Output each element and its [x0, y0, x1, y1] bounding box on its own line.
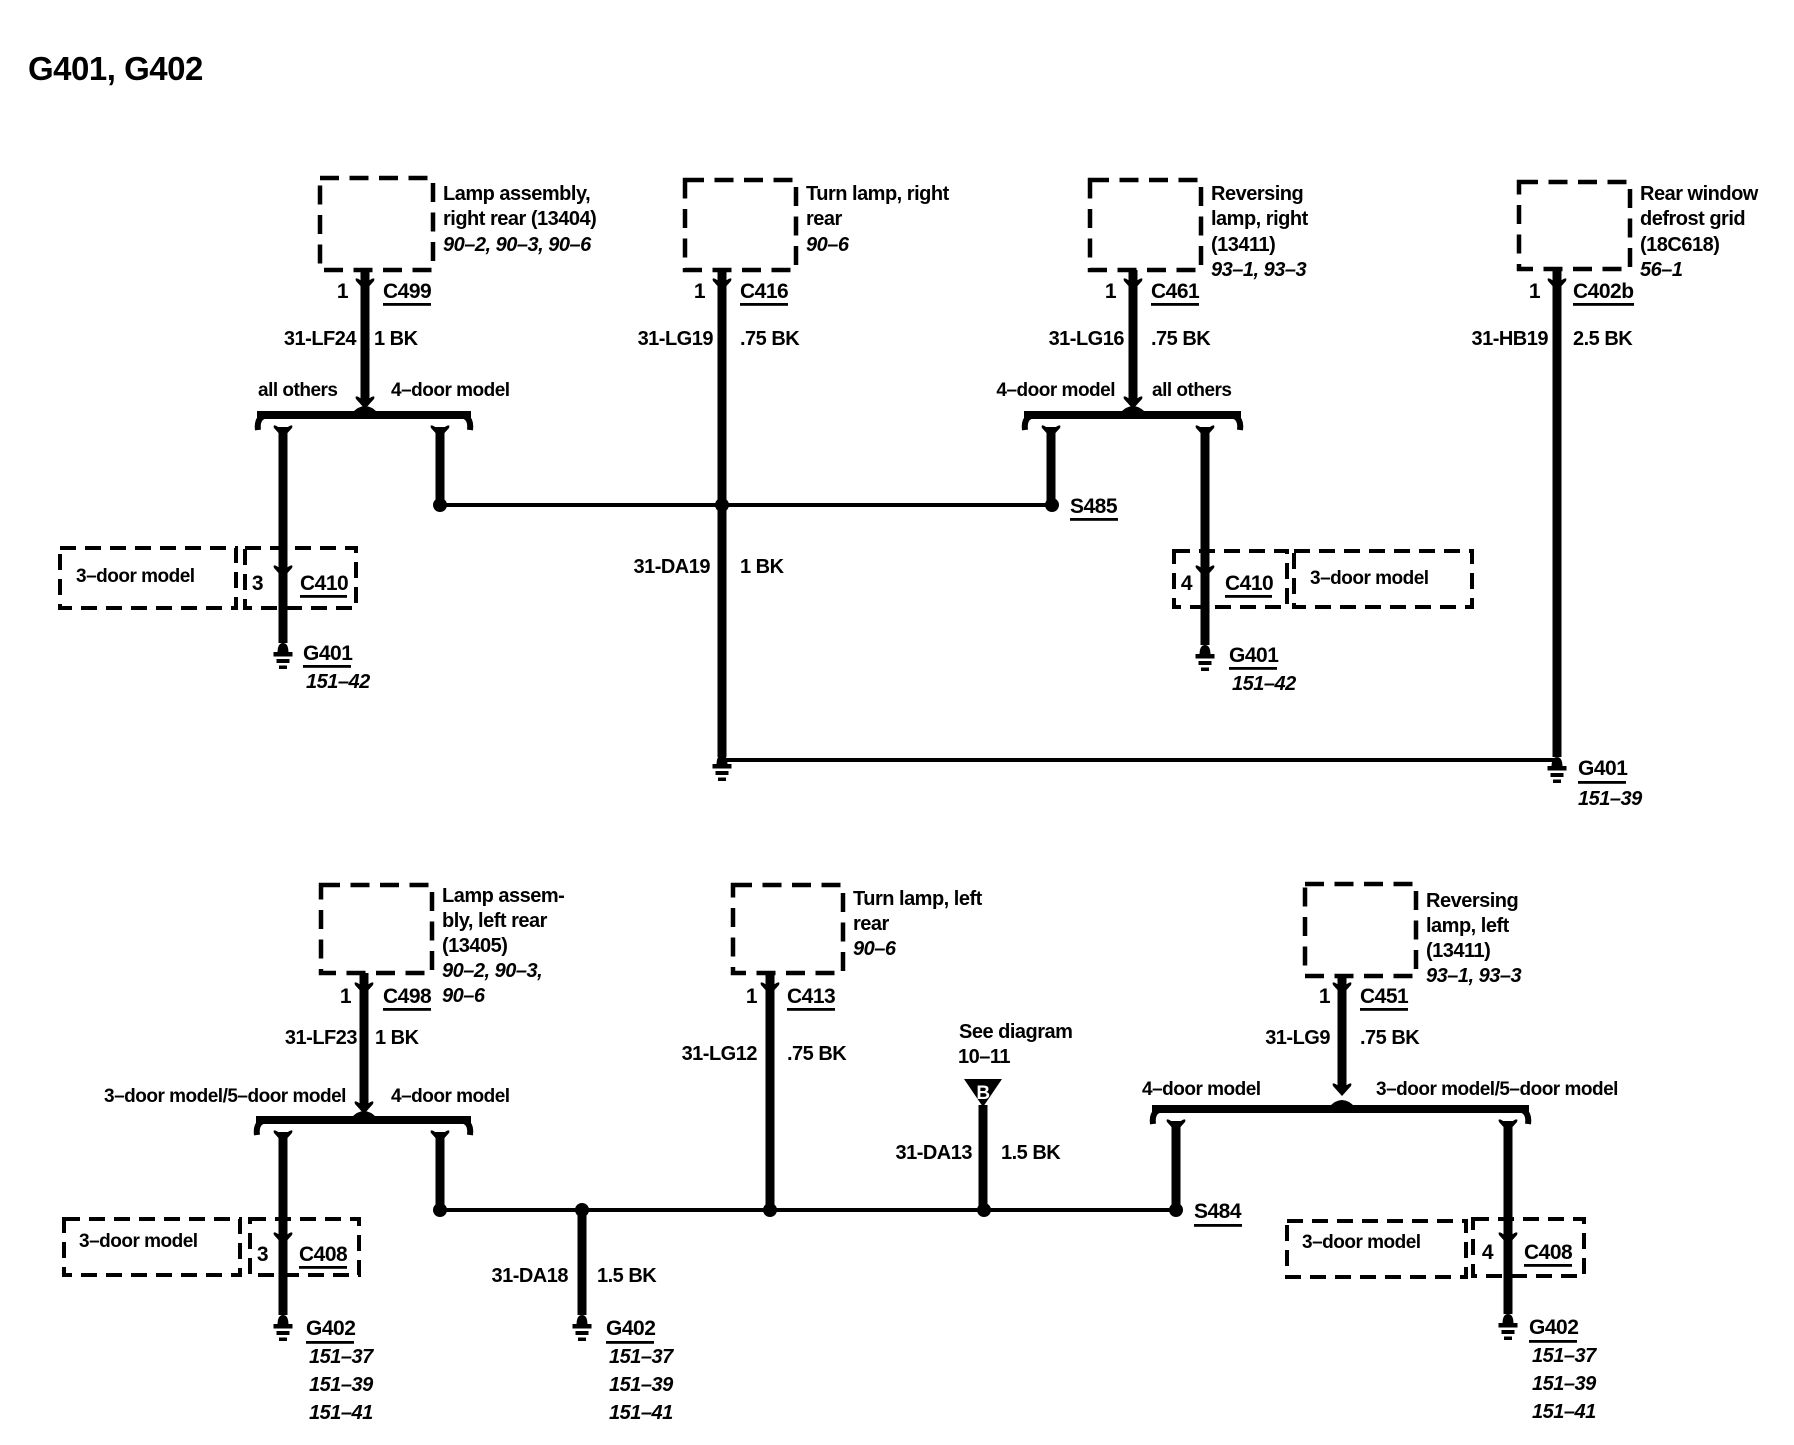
- svg-text:G402: G402: [306, 1317, 355, 1340]
- junction node 31-DA13: [977, 1203, 991, 1217]
- branch wire (4-door) to splice run: [431, 1130, 450, 1143]
- svg-text:1.5 BK: 1.5 BK: [1001, 1142, 1061, 1164]
- svg-text:31-LF23: 31-LF23: [285, 1027, 357, 1049]
- dashed box 3-door model (bottom right): [1287, 1221, 1466, 1277]
- svg-text:G401: G401: [1229, 644, 1279, 667]
- component box: Lamp assembly, right rear (13404): [320, 178, 433, 270]
- svg-text:C402b: C402b: [1573, 280, 1634, 303]
- svg-text:Turn lamp, left: Turn lamp, left: [853, 888, 983, 910]
- svg-text:4–door model: 4–door model: [996, 380, 1115, 401]
- wire 31-HB19 from C402b down: [1553, 269, 1562, 757]
- svg-text:90–2, 90–3, 90–6: 90–2, 90–3, 90–6: [443, 234, 592, 256]
- svg-text:1: 1: [337, 280, 349, 303]
- svg-text:Rear window: Rear window: [1640, 183, 1759, 205]
- svg-text:C408: C408: [299, 1243, 348, 1266]
- svg-text:.75 BK: .75 BK: [1151, 328, 1211, 350]
- svg-text:151–37: 151–37: [1532, 1345, 1597, 1367]
- svg-text:31-HB19: 31-HB19: [1471, 328, 1548, 350]
- ground G401 (left): [278, 643, 289, 653]
- svg-text:defrost grid: defrost grid: [1640, 208, 1745, 230]
- svg-text:lamp, left: lamp, left: [1426, 915, 1510, 937]
- svg-text:all others: all others: [1152, 380, 1231, 401]
- branch wire to C410 pin 4 (all others): [1196, 425, 1215, 438]
- wire 31-DA18 to ground: [578, 1210, 587, 1315]
- svg-text:1: 1: [1319, 985, 1331, 1008]
- svg-text:C416: C416: [740, 280, 788, 303]
- svg-text:right rear (13404): right rear (13404): [443, 208, 596, 230]
- ground G401 under 31-HB19: [1552, 757, 1563, 767]
- svg-text:3–door model/5–door model: 3–door model/5–door model: [1376, 1079, 1618, 1100]
- svg-text:3: 3: [257, 1243, 268, 1266]
- svg-text:rear: rear: [806, 208, 843, 230]
- junction node 31-DA18: [575, 1203, 589, 1217]
- svg-text:1: 1: [694, 280, 706, 303]
- dashed box 3-door model (top right): [1294, 551, 1472, 607]
- svg-text:.75 BK: .75 BK: [787, 1043, 847, 1065]
- svg-text:90–6: 90–6: [442, 985, 486, 1007]
- connector C461 pin 1: [1124, 278, 1143, 291]
- svg-text:all others: all others: [258, 380, 337, 401]
- option split bar (4-door model / all others): [1024, 411, 1241, 419]
- junction node: [433, 498, 447, 512]
- svg-text:90–2, 90–3,: 90–2, 90–3,: [442, 960, 542, 982]
- svg-text:151–41: 151–41: [1532, 1401, 1596, 1423]
- svg-text:1 BK: 1 BK: [375, 1027, 420, 1049]
- svg-text:3: 3: [252, 572, 263, 595]
- svg-text:.75 BK: .75 BK: [1360, 1027, 1420, 1049]
- svg-text:151–37: 151–37: [609, 1346, 674, 1368]
- component box: Lamp assembly, left rear (13405): [321, 885, 432, 973]
- svg-text:1: 1: [1105, 280, 1117, 303]
- connector C410 pin 4: [1174, 551, 1287, 607]
- connector C410 pin 3: [245, 548, 356, 608]
- dashed box 3-door model (bottom left): [64, 1219, 240, 1275]
- svg-text:G402: G402: [1529, 1316, 1578, 1339]
- svg-text:(18C618): (18C618): [1640, 234, 1719, 256]
- component box: Turn lamp, left rear: [733, 885, 843, 973]
- ground G402 (left): [278, 1315, 289, 1325]
- connector C413 pin 1: [761, 982, 780, 995]
- svg-text:4–door model: 4–door model: [391, 1086, 510, 1107]
- svg-text:1: 1: [340, 985, 352, 1008]
- svg-text:10–11: 10–11: [958, 1046, 1010, 1068]
- option split bar (3-door/5-door / 4-door) left: [256, 1116, 471, 1124]
- svg-text:151–42: 151–42: [306, 671, 370, 693]
- svg-text:31-LG16: 31-LG16: [1049, 328, 1125, 350]
- branch wire to C408 pin 3: [274, 1130, 293, 1143]
- svg-text:C413: C413: [787, 985, 835, 1008]
- svg-text:3–door model: 3–door model: [79, 1231, 198, 1252]
- ground run wire joining G401 grounds: [722, 758, 1557, 762]
- svg-text:G402: G402: [606, 1317, 655, 1340]
- svg-text:151–42: 151–42: [1232, 673, 1296, 695]
- junction node on 31-DA19: [715, 498, 729, 512]
- svg-text:31-LF24: 31-LF24: [284, 328, 357, 350]
- svg-text:4–door model: 4–door model: [391, 380, 510, 401]
- branch wire to C410 pin 3 (all others): [274, 425, 293, 438]
- svg-text:C498: C498: [383, 985, 432, 1008]
- svg-text:1.5 BK: 1.5 BK: [597, 1265, 657, 1287]
- splice S484: [1169, 1203, 1183, 1217]
- svg-text:151–37: 151–37: [309, 1346, 374, 1368]
- ground G402 (right): [1503, 1314, 1514, 1324]
- svg-text:90–6: 90–6: [853, 938, 897, 960]
- svg-text:.75 BK: .75 BK: [740, 328, 800, 350]
- branch wire to C408 pin 4: [1499, 1119, 1518, 1132]
- branch wire to splice S484: [1167, 1119, 1186, 1132]
- svg-text:Reversing: Reversing: [1211, 183, 1303, 205]
- wire 31-DA13 from B to splice run: [979, 1105, 988, 1214]
- svg-text:93–1, 93–3: 93–1, 93–3: [1426, 965, 1521, 987]
- svg-text:bly, left rear: bly, left rear: [442, 910, 548, 932]
- junction node 31-LG12: [763, 1203, 777, 1217]
- svg-text:3–door model: 3–door model: [76, 566, 195, 587]
- dashed box 3-door model (top left): [60, 548, 236, 608]
- svg-text:C410: C410: [300, 572, 348, 595]
- svg-text:31-DA18: 31-DA18: [491, 1265, 568, 1287]
- splice S485: [1045, 498, 1059, 512]
- component box: Rear window defrost grid (18C618): [1519, 182, 1630, 269]
- connector C402b pin 1: [1548, 278, 1567, 291]
- svg-text:1 BK: 1 BK: [374, 328, 419, 350]
- option split bar (4-door / 3-door/5-door) right: [1152, 1105, 1529, 1113]
- svg-text:31-LG19: 31-LG19: [638, 328, 714, 350]
- svg-text:90–6: 90–6: [806, 234, 850, 256]
- svg-text:1: 1: [1529, 280, 1541, 303]
- svg-text:31-LG9: 31-LG9: [1265, 1027, 1330, 1049]
- connector C498 pin 1: [355, 982, 374, 995]
- wire 31-LG19 from C416 down: [718, 270, 727, 757]
- junction node: [433, 1203, 447, 1217]
- wire 31-LG9 from C451 to option bar: [1338, 976, 1347, 1091]
- ground G401 (right): [1200, 645, 1211, 655]
- svg-text:C410: C410: [1225, 572, 1273, 595]
- svg-text:4–door model: 4–door model: [1142, 1079, 1261, 1100]
- connector C408 pin 4: [1473, 1219, 1584, 1276]
- connector C408 pin 3: [250, 1219, 359, 1275]
- svg-text:G401, G402: G401, G402: [28, 50, 203, 87]
- connector C416 pin 1: [713, 278, 732, 291]
- component box: Turn lamp, right rear: [685, 180, 796, 270]
- component box: Reversing lamp, left (13411): [1305, 884, 1416, 976]
- svg-text:151–39: 151–39: [1578, 788, 1643, 810]
- svg-text:C499: C499: [383, 280, 431, 303]
- svg-text:See diagram: See diagram: [959, 1021, 1072, 1043]
- connector C499 pin 1: [356, 278, 375, 291]
- svg-text:G401: G401: [303, 642, 353, 665]
- svg-text:3–door model/5–door model: 3–door model/5–door model: [104, 1086, 346, 1107]
- ground G402 (center): [577, 1315, 588, 1325]
- svg-text:151–39: 151–39: [1532, 1373, 1597, 1395]
- svg-text:1 BK: 1 BK: [740, 556, 785, 578]
- wire splice run to S485: [440, 503, 1052, 507]
- svg-text:(13411): (13411): [1426, 940, 1490, 962]
- svg-text:4: 4: [1181, 572, 1193, 595]
- svg-text:C451: C451: [1360, 985, 1409, 1008]
- svg-text:1: 1: [746, 985, 758, 1008]
- wire 31-LF24 from C499 to option bar: [361, 270, 370, 404]
- svg-text:lamp, right: lamp, right: [1211, 208, 1309, 230]
- splice run wire to S484: [440, 1208, 1176, 1212]
- svg-text:31-DA13: 31-DA13: [895, 1142, 972, 1164]
- component box: Reversing lamp, right (13411): [1090, 180, 1201, 270]
- wire 31-DA19 down to ground: [718, 505, 727, 757]
- svg-text:2.5 BK: 2.5 BK: [1573, 328, 1633, 350]
- svg-text:rear: rear: [853, 913, 890, 935]
- svg-text:151–39: 151–39: [609, 1374, 674, 1396]
- svg-text:4: 4: [1482, 1241, 1494, 1264]
- svg-text:3–door model: 3–door model: [1310, 568, 1429, 589]
- svg-text:(13411): (13411): [1211, 234, 1275, 256]
- svg-text:151–39: 151–39: [309, 1374, 374, 1396]
- svg-text:Lamp assembly,: Lamp assembly,: [443, 183, 590, 205]
- svg-text:S485: S485: [1070, 495, 1118, 518]
- svg-text:31-DA19: 31-DA19: [633, 556, 710, 578]
- svg-text:Turn lamp, right: Turn lamp, right: [806, 183, 950, 205]
- svg-text:3–door model: 3–door model: [1302, 1232, 1421, 1253]
- svg-text:G401: G401: [1578, 757, 1628, 780]
- connector C451 pin 1: [1333, 982, 1352, 995]
- ground G401 under 31-DA19: [717, 755, 728, 765]
- wire 31-LG16 from C461 to option bar: [1129, 270, 1138, 404]
- branch wire to splice S485: [1042, 425, 1061, 438]
- svg-text:56–1: 56–1: [1640, 259, 1683, 281]
- svg-text:93–1, 93–3: 93–1, 93–3: [1211, 259, 1306, 281]
- svg-text:(13405): (13405): [442, 935, 507, 957]
- svg-text:151–41: 151–41: [309, 1402, 373, 1424]
- wire 31-LG12 from C413 down: [766, 973, 775, 1214]
- svg-text:B: B: [976, 1083, 989, 1104]
- svg-text:31-LG12: 31-LG12: [682, 1043, 758, 1065]
- wire 31-LF23 from C498 to option bar: [360, 973, 369, 1109]
- svg-text:Lamp assem-: Lamp assem-: [442, 885, 564, 907]
- option split bar (all others / 4-door model): [257, 411, 471, 419]
- svg-text:C461: C461: [1151, 280, 1200, 303]
- branch wire (4-door model) to splice: [431, 425, 450, 438]
- svg-text:S484: S484: [1194, 1200, 1242, 1223]
- svg-text:C408: C408: [1524, 1241, 1573, 1264]
- svg-text:Reversing: Reversing: [1426, 890, 1518, 912]
- svg-text:151–41: 151–41: [609, 1402, 673, 1424]
